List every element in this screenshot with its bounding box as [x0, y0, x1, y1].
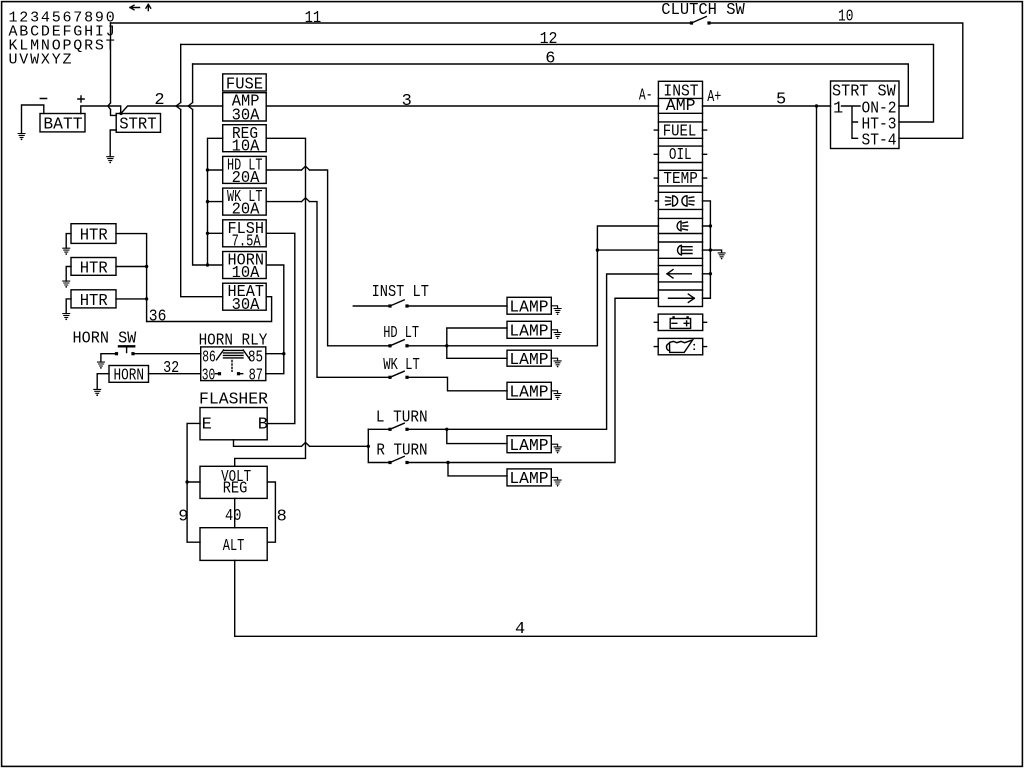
switch WK LT	[383, 356, 420, 379]
wire HORN SW to ground	[101, 354, 117, 362]
svg-text:7.5A: 7.5A	[232, 232, 262, 251]
wire WK LT fuse output to WK LT switch (with hop)	[266, 198, 390, 377]
wire FLASHER E to node 9 bus	[187, 423, 200, 542]
wire R TURN switch to LAMP6 and right arrow indicator	[407, 298, 658, 476]
lamp LAMP4	[507, 382, 551, 402]
wire turn feed riser	[368, 429, 390, 462]
ground (LAMP1)	[551, 306, 561, 315]
svg-text:FUSE: FUSE	[226, 75, 263, 94]
plot orientation arrows	[130, 4, 151, 10]
svg-text:9: 9	[178, 508, 188, 527]
label 9	[178, 508, 188, 527]
wire 3 (AMP fuse to ammeter A-)	[266, 105, 658, 107]
junction dots on fuse bus	[206, 168, 209, 266]
svg-text:LAMP: LAMP	[509, 384, 548, 403]
wire L TURN switch to LAMP5 and left arrow indicator	[407, 274, 658, 444]
fuse HORN 10A	[223, 252, 267, 284]
lamp LAMP1	[507, 297, 551, 317]
svg-text:40: 40	[225, 507, 241, 526]
label A+	[707, 88, 721, 107]
svg-text:LAMP: LAMP	[509, 351, 548, 370]
junction dots heater bus	[145, 265, 148, 301]
wire FLASHER load output to turn switches (with hop)	[234, 440, 369, 447]
svg-text:STRT: STRT	[119, 115, 157, 134]
wire FLSH fuse output to FLASHER B	[266, 233, 295, 423]
svg-text:30A: 30A	[232, 106, 261, 125]
heater HTR 1	[71, 224, 116, 246]
svg-text:86: 86	[202, 349, 216, 368]
svg-text:85: 85	[248, 349, 263, 368]
svg-text:32: 32	[163, 359, 179, 378]
ground (HORN SW)	[98, 362, 105, 369]
svg-text:B: B	[258, 415, 268, 434]
svg-text:FUEL: FUEL	[663, 123, 697, 142]
svg-text:4: 4	[515, 620, 525, 639]
flasher FLASHER	[199, 391, 268, 440]
svg-text:LAMP: LAMP	[509, 323, 548, 342]
svg-text:36: 36	[149, 307, 167, 326]
temp gauge TEMP	[654, 170, 706, 189]
svg-text:LAMP: LAMP	[509, 437, 548, 456]
label 40	[225, 507, 241, 526]
label 5	[776, 91, 786, 110]
wire 8 (VOLT REG right to ALT right)	[267, 482, 275, 542]
fuse HEAT 30A	[223, 283, 267, 315]
junction dot L TURN branch	[445, 428, 448, 431]
lamp LAMP6	[507, 469, 551, 489]
svg-text:LAMP: LAMP	[509, 470, 548, 489]
tap arrow to net 6 / HORN bus vertical	[188, 64, 207, 265]
switch R TURN	[376, 441, 427, 464]
svg-text:E: E	[202, 415, 212, 434]
svg-text:UVWXYZ: UVWXYZ	[9, 51, 74, 68]
wire HTR1 to ground	[66, 234, 71, 249]
junction dot STRT corner	[119, 112, 122, 115]
wire 4 (ALT output to starter switch feed)	[235, 106, 817, 636]
fuse FLSH 7.5A	[223, 220, 267, 252]
left turn indicator arrow	[667, 270, 691, 278]
svg-text:20A: 20A	[232, 201, 261, 220]
wire 2 (BATT positive feed)	[81, 106, 121, 114]
wire INST LT switch to LAMP1	[407, 305, 507, 307]
svg-text:5: 5	[776, 91, 786, 110]
label 3	[402, 92, 412, 111]
svg-text:87: 87	[249, 366, 263, 385]
svg-text:TEMP: TEMP	[663, 170, 697, 189]
alternator ALT	[200, 528, 267, 561]
ground (LAMP2)	[551, 330, 561, 339]
title block font sample	[9, 9, 117, 68]
horn switch HORN SW	[73, 330, 138, 356]
wire HORN SW to relay coil 86	[133, 353, 201, 355]
wire HTR2 to ground	[66, 267, 71, 282]
svg-text:6: 6	[545, 50, 555, 69]
instrument cluster outer box	[658, 81, 702, 306]
wire indicator bus to ground	[710, 250, 721, 253]
label 36	[149, 307, 167, 326]
ground (LAMP5)	[551, 444, 561, 453]
svg-text:A-: A-	[639, 87, 653, 106]
horn relay HORN RLY	[199, 332, 268, 386]
battery BATT	[40, 96, 85, 134]
ground (HTR2)	[63, 281, 70, 288]
switch INST LT	[353, 283, 429, 308]
headlight indicator icon	[677, 245, 692, 255]
svg-text:LAMP: LAMP	[509, 298, 548, 317]
svg-text:2: 2	[154, 91, 164, 110]
svg-text:10A: 10A	[232, 264, 261, 283]
wire STRT to ground	[110, 130, 116, 157]
svg-text:CLUTCH SW: CLUTCH SW	[661, 1, 745, 20]
svg-text:INST LT: INST LT	[372, 283, 429, 302]
ground (LAMP4)	[551, 391, 561, 400]
tap arrow to net 12 / HEAT feed vertical	[176, 44, 223, 296]
wire BATT negative to ground	[22, 105, 44, 133]
right turn indicator arrow	[669, 294, 695, 302]
svg-text:OIL: OIL	[669, 146, 692, 165]
high beam indicator icon	[655, 196, 694, 206]
label 8	[277, 508, 287, 527]
wire REG fuse output to VOLT REG	[235, 138, 306, 466]
wire 40 (VOLT REG to ALT field)	[234, 498, 236, 527]
svg-text:HORN: HORN	[114, 367, 145, 386]
junction dot R TURN branch	[446, 461, 449, 464]
oil gauge OIL	[654, 146, 706, 165]
heater HTR 3	[71, 290, 116, 311]
junction dot wire 4 / wire 5	[815, 104, 818, 107]
wire HTR3 to ground	[66, 299, 71, 314]
junction dot VOLT REG left	[185, 480, 188, 483]
svg-text:11: 11	[305, 9, 322, 28]
wire HORN fuse output to horn relay 85	[266, 265, 284, 374]
node A junction arrows at starter tap	[108, 23, 116, 115]
label 6	[545, 50, 555, 69]
fuse REG 10A	[223, 125, 267, 157]
lamp LAMP5	[507, 436, 551, 456]
svg-text:A+: A+	[707, 88, 721, 107]
ammeter gauge INST AMP	[663, 82, 698, 116]
svg-text:HD LT: HD LT	[383, 324, 419, 343]
svg-text:FLASHER: FLASHER	[199, 391, 268, 410]
svg-text:1: 1	[833, 100, 843, 119]
ground (HTR1)	[63, 248, 70, 255]
wire 32 (HORN to relay 30)	[149, 373, 201, 375]
wire 5 (ammeter A+ to STRT SW pin 1)	[703, 105, 831, 107]
ground (HORN)	[94, 389, 101, 396]
svg-text:HTR: HTR	[80, 259, 108, 278]
svg-text:HTR: HTR	[80, 292, 108, 311]
voltage regulator VOLT REG	[200, 466, 267, 498]
lamp LAMP3	[507, 350, 551, 370]
ground (LAMP3)	[551, 358, 561, 367]
label 12	[540, 30, 558, 49]
horn relay contact symbol (30-87)	[216, 361, 243, 376]
fuse input bus (left of fuses)	[208, 138, 223, 265]
label 10	[838, 8, 853, 27]
label 2	[154, 91, 164, 110]
junction dot turn feed	[367, 445, 370, 448]
fog lamp indicator icon	[677, 221, 688, 231]
junction dot headlight indicator branch	[596, 248, 599, 251]
wire HEAT fuse output loop to heater bus 36	[147, 297, 272, 322]
fuse HD LT 20A	[223, 156, 267, 188]
starter STRT	[116, 114, 160, 135]
indicator return bus to ground	[703, 201, 711, 298]
heater HTR 2	[71, 258, 116, 279]
horn HORN	[109, 366, 149, 386]
fuel gauge FUEL	[654, 123, 706, 142]
svg-text:30: 30	[202, 366, 216, 385]
wire 10 (clutch switch to STRT SW pin ST-4)	[709, 23, 963, 138]
junction dot HD LT branch	[445, 344, 448, 347]
svg-text:3: 3	[402, 92, 412, 111]
fuse WK LT 20A	[223, 188, 267, 220]
label A-	[639, 87, 653, 106]
label 11	[305, 9, 322, 28]
svg-text:30A: 30A	[232, 296, 261, 315]
junction dots indicator bus	[709, 224, 712, 275]
fuse block header FUSE	[223, 74, 267, 94]
switch L TURN	[368, 408, 427, 431]
svg-text:REG: REG	[223, 480, 248, 499]
svg-text:AMP: AMP	[666, 97, 696, 116]
ground (LAMP6)	[551, 477, 561, 486]
ground (BATT)	[18, 134, 25, 141]
wire 6 (net 6 to STRT SW pin ON-2)	[193, 64, 909, 106]
starter switch STRT SW	[831, 81, 900, 151]
label 32	[163, 359, 179, 378]
svg-text:10A: 10A	[232, 137, 261, 156]
wire 2 diagonal into main run	[121, 106, 223, 113]
ground (STRT)	[107, 157, 114, 164]
wire HD LT switch to lamps and high beam indicator	[407, 226, 658, 358]
wire WK LT switch to LAMP4	[407, 377, 507, 391]
ground (indicator bus)	[718, 253, 725, 260]
wire HORN to ground	[97, 374, 109, 390]
wire 11 (net 11 from node A to clutch switch)	[111, 22, 692, 24]
svg-text:10: 10	[838, 8, 853, 27]
svg-text:BATT: BATT	[43, 115, 82, 134]
junction dot horn relay 85	[282, 352, 285, 355]
wire 12 (net 12 to STRT SW pin HT-3)	[181, 44, 934, 122]
wire HD LT fuse output to HD LT switch (with hop)	[266, 166, 390, 346]
switch HD LT	[383, 324, 419, 347]
svg-text:HTR: HTR	[80, 227, 108, 246]
svg-text:ST-4: ST-4	[862, 132, 897, 151]
svg-text:12: 12	[540, 30, 558, 49]
horn relay coil symbol	[217, 350, 251, 360]
svg-text:20A: 20A	[232, 169, 261, 188]
svg-text:8: 8	[277, 508, 287, 527]
clutch switch CLUTCH SW	[661, 1, 745, 25]
fuse AMP 30A	[223, 93, 267, 126]
label 4	[515, 620, 525, 639]
ground (HTR3)	[63, 314, 70, 321]
battery indicator box	[654, 314, 706, 330]
lamp LAMP2	[507, 321, 551, 341]
oil pressure indicator icon (oil can)	[666, 340, 695, 352]
heater output bus	[116, 234, 147, 322]
oil pressure indicator box	[654, 338, 706, 354]
svg-text:ALT: ALT	[223, 537, 245, 556]
battery indicator icon	[670, 316, 690, 328]
